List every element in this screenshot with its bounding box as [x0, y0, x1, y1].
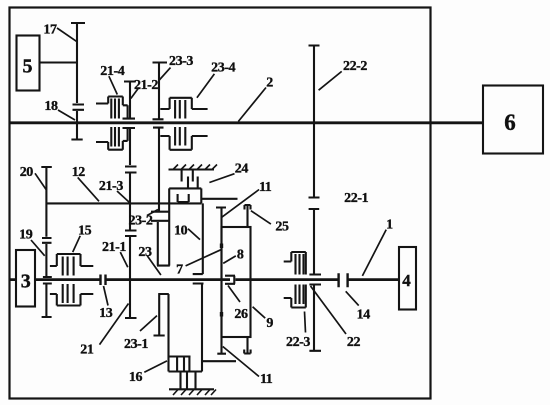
svg-text:22-2: 22-2 [343, 59, 367, 74]
svg-text:23-1: 23-1 [124, 337, 148, 352]
svg-text:11: 11 [259, 180, 272, 195]
svg-text:22-3: 22-3 [286, 335, 310, 350]
svg-text:2: 2 [266, 76, 273, 91]
svg-text:23-3: 23-3 [169, 54, 193, 69]
svg-text:19: 19 [19, 227, 33, 242]
svg-text:16: 16 [129, 370, 143, 385]
svg-text:1: 1 [386, 217, 393, 232]
svg-text:9: 9 [266, 316, 273, 331]
svg-text:20: 20 [20, 165, 34, 180]
svg-text:23-4: 23-4 [211, 60, 235, 75]
svg-text:10: 10 [174, 224, 188, 239]
svg-text:12: 12 [72, 165, 86, 180]
svg-text:24: 24 [235, 161, 249, 176]
svg-text:21: 21 [80, 342, 94, 357]
svg-text:5: 5 [23, 56, 33, 78]
svg-text:21-2: 21-2 [134, 78, 158, 93]
svg-text:21-1: 21-1 [102, 240, 126, 255]
svg-text:13: 13 [99, 306, 113, 321]
svg-text:22: 22 [347, 335, 361, 350]
svg-text:15: 15 [78, 224, 92, 239]
svg-text:11: 11 [260, 372, 273, 387]
svg-text:21-4: 21-4 [100, 64, 124, 79]
svg-text:21-3: 21-3 [99, 179, 123, 194]
svg-text:23-2: 23-2 [128, 214, 152, 229]
svg-text:14: 14 [357, 308, 371, 323]
svg-text:18: 18 [44, 99, 58, 114]
svg-text:8: 8 [237, 247, 244, 262]
svg-text:7: 7 [176, 262, 183, 277]
svg-text:25: 25 [275, 220, 289, 235]
svg-text:22-1: 22-1 [344, 191, 368, 206]
svg-text:4: 4 [402, 271, 411, 290]
svg-text:6: 6 [504, 110, 516, 135]
svg-text:23: 23 [138, 245, 152, 260]
svg-text:17: 17 [43, 23, 57, 38]
svg-text:26: 26 [234, 307, 248, 322]
svg-text:3: 3 [21, 271, 31, 293]
